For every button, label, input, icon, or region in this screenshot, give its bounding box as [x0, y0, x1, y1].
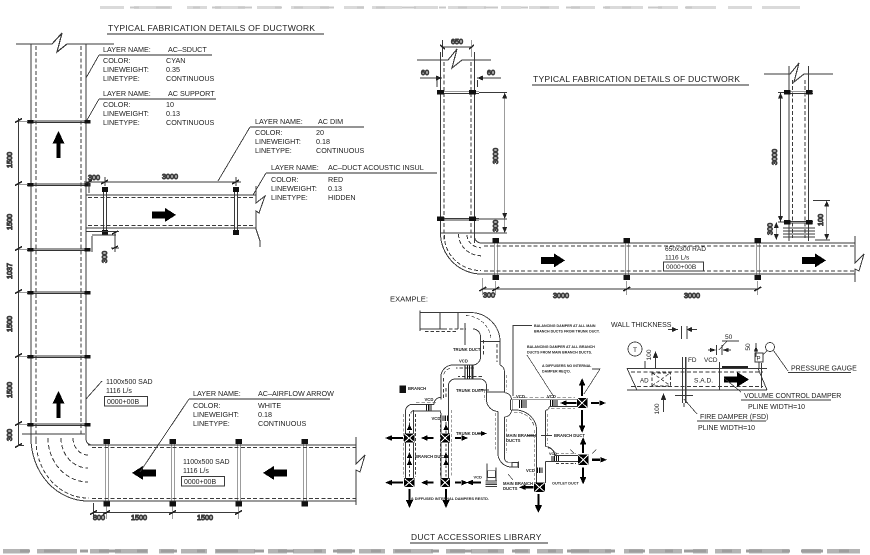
- svg-text:3000: 3000: [491, 148, 500, 164]
- label block AC-AIRFLOW ARROW: [189, 389, 334, 428]
- svg-text:COLOR:: COLOR:: [255, 128, 283, 137]
- bottom title: [410, 532, 548, 544]
- svg-text:BRANCH: BRANCH: [408, 386, 426, 391]
- svg-text:BRANCH DUCTS FROM TRUNK DUCT.: BRANCH DUCTS FROM TRUNK DUCT.: [534, 330, 600, 334]
- svg-text:100: 100: [816, 214, 825, 226]
- VCD BRANCH chip label: [400, 386, 407, 394]
- trunk vertical run: [481, 337, 501, 366]
- branch2 east run: [546, 447, 579, 464]
- middle branch down: [534, 410, 547, 483]
- svg-text:LINEWEIGHT:: LINEWEIGHT:: [271, 184, 317, 193]
- v2 support top: [784, 90, 813, 95]
- svg-text:EXAMPLE:: EXAMPLE:: [390, 295, 428, 304]
- trunk S to west: [453, 357, 481, 365]
- svg-text:1500: 1500: [131, 513, 147, 522]
- svg-text:CYAN: CYAN: [166, 56, 185, 65]
- svg-text:3000: 3000: [553, 291, 569, 300]
- svg-text:LINEWEIGHT:: LINEWEIGHT:: [103, 109, 149, 118]
- leader AC-AIRFLOW ARROW: [140, 399, 189, 472]
- throw arrows row 1: [385, 435, 468, 441]
- left dimension line: [15, 118, 27, 448]
- vertical dim 300 below branch: [92, 231, 119, 252]
- trunk S elbow to south: [441, 365, 455, 400]
- 60 dim right: [477, 76, 501, 88]
- svg-text:COLOR:: COLOR:: [103, 56, 131, 65]
- svg-text:650: 650: [451, 37, 463, 46]
- svg-text:DUCTS: DUCTS: [506, 438, 521, 443]
- leader AC SUPPORT: [87, 99, 99, 120]
- support at top of 650 duct: [437, 90, 479, 95]
- flow arrow: [724, 372, 749, 387]
- 60 dim left: [420, 76, 442, 88]
- svg-text:LINETYPE:: LINETYPE:: [103, 118, 140, 127]
- svg-text:DUCTS: DUCTS: [503, 486, 518, 491]
- svg-text:300: 300: [766, 223, 775, 235]
- bottom horizontal duct: [88, 445, 356, 501]
- duct body: [627, 368, 767, 390]
- leader 1: [513, 326, 532, 397]
- trunk bottom tee east + down grille: [485, 454, 518, 487]
- 650 duct walls: [441, 52, 475, 243]
- bottom duct supports: [104, 439, 308, 507]
- svg-text:VCD: VCD: [516, 394, 525, 399]
- svg-text:300: 300: [93, 513, 105, 522]
- trunk down run: [484, 372, 511, 458]
- label 1100x500 SAD lower: [183, 459, 230, 486]
- svg-text:DUCTS FROM MAIN BRANCH DUCTS.: DUCTS FROM MAIN BRANCH DUCTS.: [527, 351, 592, 355]
- svg-text:1500: 1500: [5, 152, 14, 168]
- damper blade above duct: [722, 366, 748, 368]
- svg-text:TYPICAL FABRICATION DETAILS OF: TYPICAL FABRICATION DETAILS OF DUCTWORK: [533, 74, 740, 84]
- grille throw arrow left: [466, 480, 481, 486]
- down arrows below branches: [406, 489, 450, 508]
- label block AC-SDUCT: [99, 45, 215, 83]
- svg-text:650x300 RAD: 650x300 RAD: [665, 246, 706, 253]
- branch supports: [102, 187, 239, 235]
- example plan: [385, 295, 607, 514]
- right duct airflow arrows: [541, 253, 565, 267]
- svg-text:OUTLET DUCT: OUTLET DUCT: [552, 482, 579, 486]
- svg-text:LAYER NAME:: LAYER NAME:: [103, 89, 151, 98]
- faint scan band top: [100, 6, 815, 9]
- svg-text:AC–DUCT ACOUSTIC INSUL: AC–DUCT ACOUSTIC INSUL: [328, 163, 424, 172]
- 650 dim: [440, 40, 474, 57]
- svg-text:3000: 3000: [684, 291, 700, 300]
- left branch 1: [404, 410, 416, 479]
- v2 100 dim: [813, 201, 830, 241]
- svg-text:VOLUME CONTROL DAMPER: VOLUME CONTROL DAMPER: [744, 393, 841, 400]
- svg-text:1500: 1500: [5, 316, 14, 332]
- svg-text:0.35: 0.35: [166, 65, 180, 74]
- svg-text:100: 100: [646, 349, 653, 360]
- X-box outlet bottom: [535, 483, 545, 492]
- v2 300 dim: [774, 222, 779, 240]
- svg-text:LINEWEIGHT:: LINEWEIGHT:: [193, 410, 239, 419]
- svg-text:AC–AIRFLOW ARROW: AC–AIRFLOW ARROW: [258, 389, 334, 398]
- top break line with zigzag: [16, 33, 114, 52]
- svg-text:CONTINUOUS: CONTINUOUS: [166, 118, 215, 127]
- svg-text:TRUNK DUCT: TRUNK DUCT: [453, 347, 481, 352]
- VCD hatch branch2 east: [552, 456, 559, 461]
- svg-text:TRUNK DUCT: TRUNK DUCT: [456, 388, 484, 393]
- PRESSURE GAUGE label w/ leader: [774, 351, 789, 372]
- outlet arrows: [519, 485, 534, 490]
- bottom dim line 300/1500/1500: [90, 503, 242, 519]
- svg-text:50: 50: [725, 334, 733, 341]
- leader AC-SDUCT: [86, 55, 99, 78]
- svg-text:COLOR:: COLOR:: [193, 401, 221, 410]
- right bottom dim 300/3000/3000: [479, 278, 761, 295]
- pressure gauge circle: [766, 343, 775, 352]
- throw arrows row 2: [385, 480, 468, 486]
- VCD hatch on S run: [465, 366, 472, 379]
- bottom duct right break: [356, 437, 365, 505]
- svg-text:BALANCING DAMPER AT ALL BRANCH: BALANCING DAMPER AT ALL BRANCH: [527, 345, 595, 349]
- X-box 1 top right: [577, 398, 587, 408]
- svg-text:& DIFFUSED INTERNAL DAMPERS RE: & DIFFUSED INTERNAL DAMPERS RESTD.: [411, 497, 489, 501]
- joint pair trunk tee: [511, 400, 513, 410]
- VCD hatch branch1 top: [427, 405, 431, 411]
- svg-text:BALANCING DAMPER AT ALL MAIN: BALANCING DAMPER AT ALL MAIN: [534, 324, 596, 328]
- svg-text:300: 300: [483, 291, 495, 300]
- svg-text:3000: 3000: [770, 149, 779, 165]
- X-box2 arrows: [580, 437, 607, 485]
- svg-text:COLOR:: COLOR:: [103, 100, 131, 109]
- svg-text:WHITE: WHITE: [258, 401, 281, 410]
- branch right break: [256, 186, 265, 247]
- svg-text:DUCT ACCESSORIES LIBRARY: DUCT ACCESSORIES LIBRARY: [411, 532, 542, 542]
- svg-text:0.13: 0.13: [328, 184, 342, 193]
- svg-text:DAMPER REQ'D.: DAMPER REQ'D.: [542, 370, 571, 374]
- VOLUME CONTROL DAMPER label: [724, 378, 741, 392]
- right vertical duct 2: [789, 66, 809, 241]
- svg-text:60: 60: [487, 68, 495, 77]
- annotation text 1: [534, 324, 600, 334]
- svg-text:1116 L/s: 1116 L/s: [665, 255, 690, 262]
- branch airflow arrow right: [152, 208, 176, 222]
- v2 bottom support stack: [783, 228, 815, 237]
- joint line S run: [472, 365, 474, 379]
- T circle: [628, 342, 642, 356]
- svg-text:300: 300: [88, 173, 100, 182]
- supports on vertical duct: [27, 121, 90, 426]
- 100 dim upper: [653, 352, 657, 368]
- svg-text:1100x500 SAD: 1100x500 SAD: [106, 379, 153, 386]
- long run left elbow down: [406, 404, 414, 413]
- X-box 2 east: [578, 455, 588, 465]
- svg-text:AC DIM: AC DIM: [318, 117, 343, 126]
- leader 3: [584, 369, 600, 394]
- 50 dim rotated: [755, 343, 757, 357]
- svg-text:COLOR:: COLOR:: [271, 175, 299, 184]
- up airflow arrow lower: [53, 391, 65, 418]
- title left: [107, 23, 324, 35]
- right detail: [417, 37, 864, 300]
- svg-text:1500: 1500: [197, 513, 213, 522]
- svg-text:1500: 1500: [5, 382, 14, 398]
- 100 dim lower: [661, 394, 665, 412]
- joint line at elbow top: [441, 232, 475, 234]
- label block AC DIM: [250, 117, 365, 155]
- svg-text:LINEWEIGHT:: LINEWEIGHT:: [103, 65, 149, 74]
- svg-text:10: 10: [166, 100, 174, 109]
- 50 dim top: [708, 341, 739, 355]
- svg-text:RED: RED: [328, 175, 343, 184]
- svg-text:VCD: VCD: [704, 357, 718, 364]
- svg-text:300: 300: [100, 251, 109, 263]
- VCD hatch top-right 2: [551, 400, 558, 406]
- svg-text:1037: 1037: [5, 263, 14, 279]
- svg-text:0.13: 0.13: [166, 109, 180, 118]
- svg-text:VCD: VCD: [459, 359, 468, 364]
- support at bottom of 650 duct: [437, 217, 479, 222]
- long horizontal run: [413, 393, 578, 428]
- svg-text:1116 L/s: 1116 L/s: [106, 388, 132, 395]
- svg-text:0.18: 0.18: [316, 137, 330, 146]
- svg-text:WALL THICKNESS: WALL THICKNESS: [611, 322, 672, 329]
- faint scan band bottom: [3, 549, 868, 553]
- AD dashed box with X: [652, 373, 671, 386]
- svg-text:PRESSURE GAUGE: PRESSURE GAUGE: [791, 366, 857, 373]
- svg-text:0000+00B: 0000+00B: [666, 264, 697, 271]
- leader AC-DUCT ACOUSTIC INSUL: [253, 173, 266, 195]
- svg-text:VCD: VCD: [432, 416, 441, 421]
- leader AC DIM: [218, 127, 250, 181]
- dim line above branch 300/3000: [84, 177, 241, 193]
- v2 3000 dim: [778, 93, 784, 223]
- svg-text:LAYER NAME:: LAYER NAME:: [255, 117, 303, 126]
- VCD hatch top-right 1: [520, 400, 527, 408]
- label block AC-DUCT ACOUSTIC INSUL: [266, 163, 437, 202]
- svg-text:VCD: VCD: [474, 475, 483, 480]
- svg-text:VCD: VCD: [549, 452, 557, 456]
- svg-text:1500: 1500: [5, 214, 14, 230]
- svg-text:PLINE WIDTH=10: PLINE WIDTH=10: [698, 425, 755, 432]
- svg-text:AC–SDUCT: AC–SDUCT: [168, 45, 207, 54]
- svg-text:LINETYPE:: LINETYPE:: [103, 74, 140, 83]
- svg-text:50: 50: [745, 343, 752, 351]
- svg-text:0000+00B: 0000+00B: [107, 399, 139, 406]
- up airflow arrow upper: [53, 131, 65, 158]
- svg-text:CONTINUOUS: CONTINUOUS: [166, 74, 215, 83]
- right duct break: [855, 236, 864, 282]
- v2 break line: [764, 63, 833, 82]
- svg-text:LINEWEIGHT:: LINEWEIGHT:: [255, 137, 301, 146]
- svg-text:S.A.D.: S.A.D.: [694, 378, 713, 385]
- svg-text:P: P: [757, 357, 761, 363]
- X-box1 arrows: [560, 378, 606, 433]
- 300 dim vertical: [475, 219, 507, 233]
- bottom elbow: [22, 434, 92, 501]
- right duct supports: [493, 238, 761, 280]
- left branch 2: [440, 400, 452, 480]
- svg-text:A DIFFUSERS NO INTERNAL: A DIFFUSERS NO INTERNAL: [542, 364, 592, 368]
- svg-text:LAYER NAME:: LAYER NAME:: [271, 163, 319, 172]
- svg-text:BRANCH DUCT: BRANCH DUCT: [554, 433, 585, 438]
- svg-text:LAYER NAME:: LAYER NAME:: [193, 389, 241, 398]
- pressure tap line: [761, 363, 763, 388]
- svg-text:3000: 3000: [162, 172, 178, 181]
- svg-text:60: 60: [421, 68, 429, 77]
- svg-text:AD: AD: [640, 378, 649, 385]
- svg-text:1116 L/s: 1116 L/s: [183, 468, 209, 475]
- svg-text:HIDDEN: HIDDEN: [328, 193, 356, 202]
- wall thickness dim arrows: [668, 329, 697, 331]
- 650 break line: [417, 49, 491, 68]
- trunk elbow down: [470, 313, 500, 342]
- svg-text:CONTINUOUS: CONTINUOUS: [258, 419, 307, 428]
- branch duct to right: [86, 195, 256, 228]
- svg-text:300: 300: [491, 220, 500, 232]
- wall double line: [682, 326, 688, 403]
- svg-text:BRANCH DUCTS: BRANCH DUCTS: [415, 454, 449, 459]
- X-box diffusers left branches: [405, 434, 450, 487]
- svg-text:PLINE WIDTH=10: PLINE WIDTH=10: [748, 404, 805, 411]
- X-box2 corner ticks: [570, 450, 596, 454]
- VCD hatch middle: [538, 468, 542, 473]
- v2 support bottom: [784, 220, 813, 225]
- svg-text:LINETYPE:: LINETYPE:: [193, 419, 230, 428]
- svg-text:LAYER NAME:: LAYER NAME:: [103, 45, 151, 54]
- support bracket below branch: [86, 232, 119, 236]
- vertical duct walls: [31, 44, 86, 440]
- svg-text:300: 300: [5, 429, 14, 441]
- FIRE DAMPER label: [684, 399, 697, 414]
- svg-text:LINETYPE:: LINETYPE:: [271, 193, 308, 202]
- svg-text:TYPICAL FABRICATION DETAILS OF: TYPICAL FABRICATION DETAILS OF DUCTWORK: [108, 23, 315, 33]
- tick marks on duct centerline left: [645, 361, 684, 407]
- label 1100x500 SAD upper: [106, 379, 153, 406]
- P box pressure tap: [755, 353, 763, 362]
- svg-text:VCD: VCD: [425, 397, 434, 402]
- left detail: [5, 33, 437, 522]
- title right: [532, 74, 749, 86]
- annotation text 3: [542, 364, 592, 374]
- svg-text:FD: FD: [688, 357, 697, 364]
- svg-text:VCD: VCD: [526, 468, 535, 473]
- svg-text:0.18: 0.18: [258, 410, 272, 419]
- svg-text:AC SUPPORT: AC SUPPORT: [168, 89, 215, 98]
- VCD hatch branch2: [443, 416, 447, 422]
- annotation text 2: [527, 345, 595, 355]
- svg-text:1100x500 SAD: 1100x500 SAD: [183, 459, 230, 466]
- small up arrows in branches: [407, 424, 449, 465]
- svg-text:CONTINUOUS: CONTINUOUS: [316, 146, 365, 155]
- right elbow: [441, 233, 482, 274]
- leader 2: [527, 355, 554, 397]
- svg-text:FIRE DAMPER (FSD): FIRE DAMPER (FSD): [700, 414, 768, 421]
- 3000 dim vertical: [479, 93, 507, 220]
- right horizontal duct: [481, 243, 855, 274]
- VCD line: [719, 362, 721, 390]
- entry trunk duct top-left: [420, 311, 473, 332]
- svg-text:0000+00B: 0000+00B: [184, 479, 216, 486]
- joint line elbow1: [481, 341, 501, 343]
- label block AC SUPPORT: [99, 89, 216, 127]
- svg-text:100: 100: [654, 403, 661, 414]
- bottom duct left arrows: [132, 466, 156, 480]
- svg-text:T: T: [633, 347, 637, 354]
- label 650x300 RAD: [665, 246, 706, 271]
- svg-text:VCD: VCD: [547, 394, 556, 399]
- svg-text:20: 20: [316, 128, 324, 137]
- centerline thru wall: [675, 395, 693, 397]
- wall thickness detail: [611, 322, 857, 432]
- leader 1100x500 SAD: [86, 381, 102, 399]
- svg-text:LINETYPE:: LINETYPE:: [255, 146, 292, 155]
